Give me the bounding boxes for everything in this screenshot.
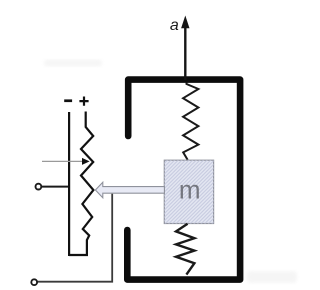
wiper link block arrow [95, 182, 164, 198]
wiper adjust arrow line [42, 160, 84, 162]
supply wire left [41, 186, 69, 188]
svg-text:a: a [170, 17, 179, 34]
faint artifact smudge top-left [44, 60, 102, 67]
acceleration arrowhead [181, 16, 189, 29]
mass m box [164, 160, 213, 223]
minus label [64, 99, 72, 102]
battery wire (left conductor) [68, 112, 70, 256]
faint artifact smudge bottom-right [247, 271, 297, 283]
svg-text:m: m [179, 174, 201, 204]
acceleration arrow line [184, 27, 186, 81]
spring lower [176, 224, 194, 275]
frame (case) [127, 80, 240, 280]
potentiometer resistor zigzag [69, 112, 93, 256]
plus label [79, 97, 88, 106]
wiper adjust arrowhead [82, 158, 90, 165]
spring upper [183, 83, 198, 160]
output terminal bottom [31, 279, 37, 285]
wiper output wire [37, 194, 112, 282]
terminal middle [36, 184, 42, 190]
